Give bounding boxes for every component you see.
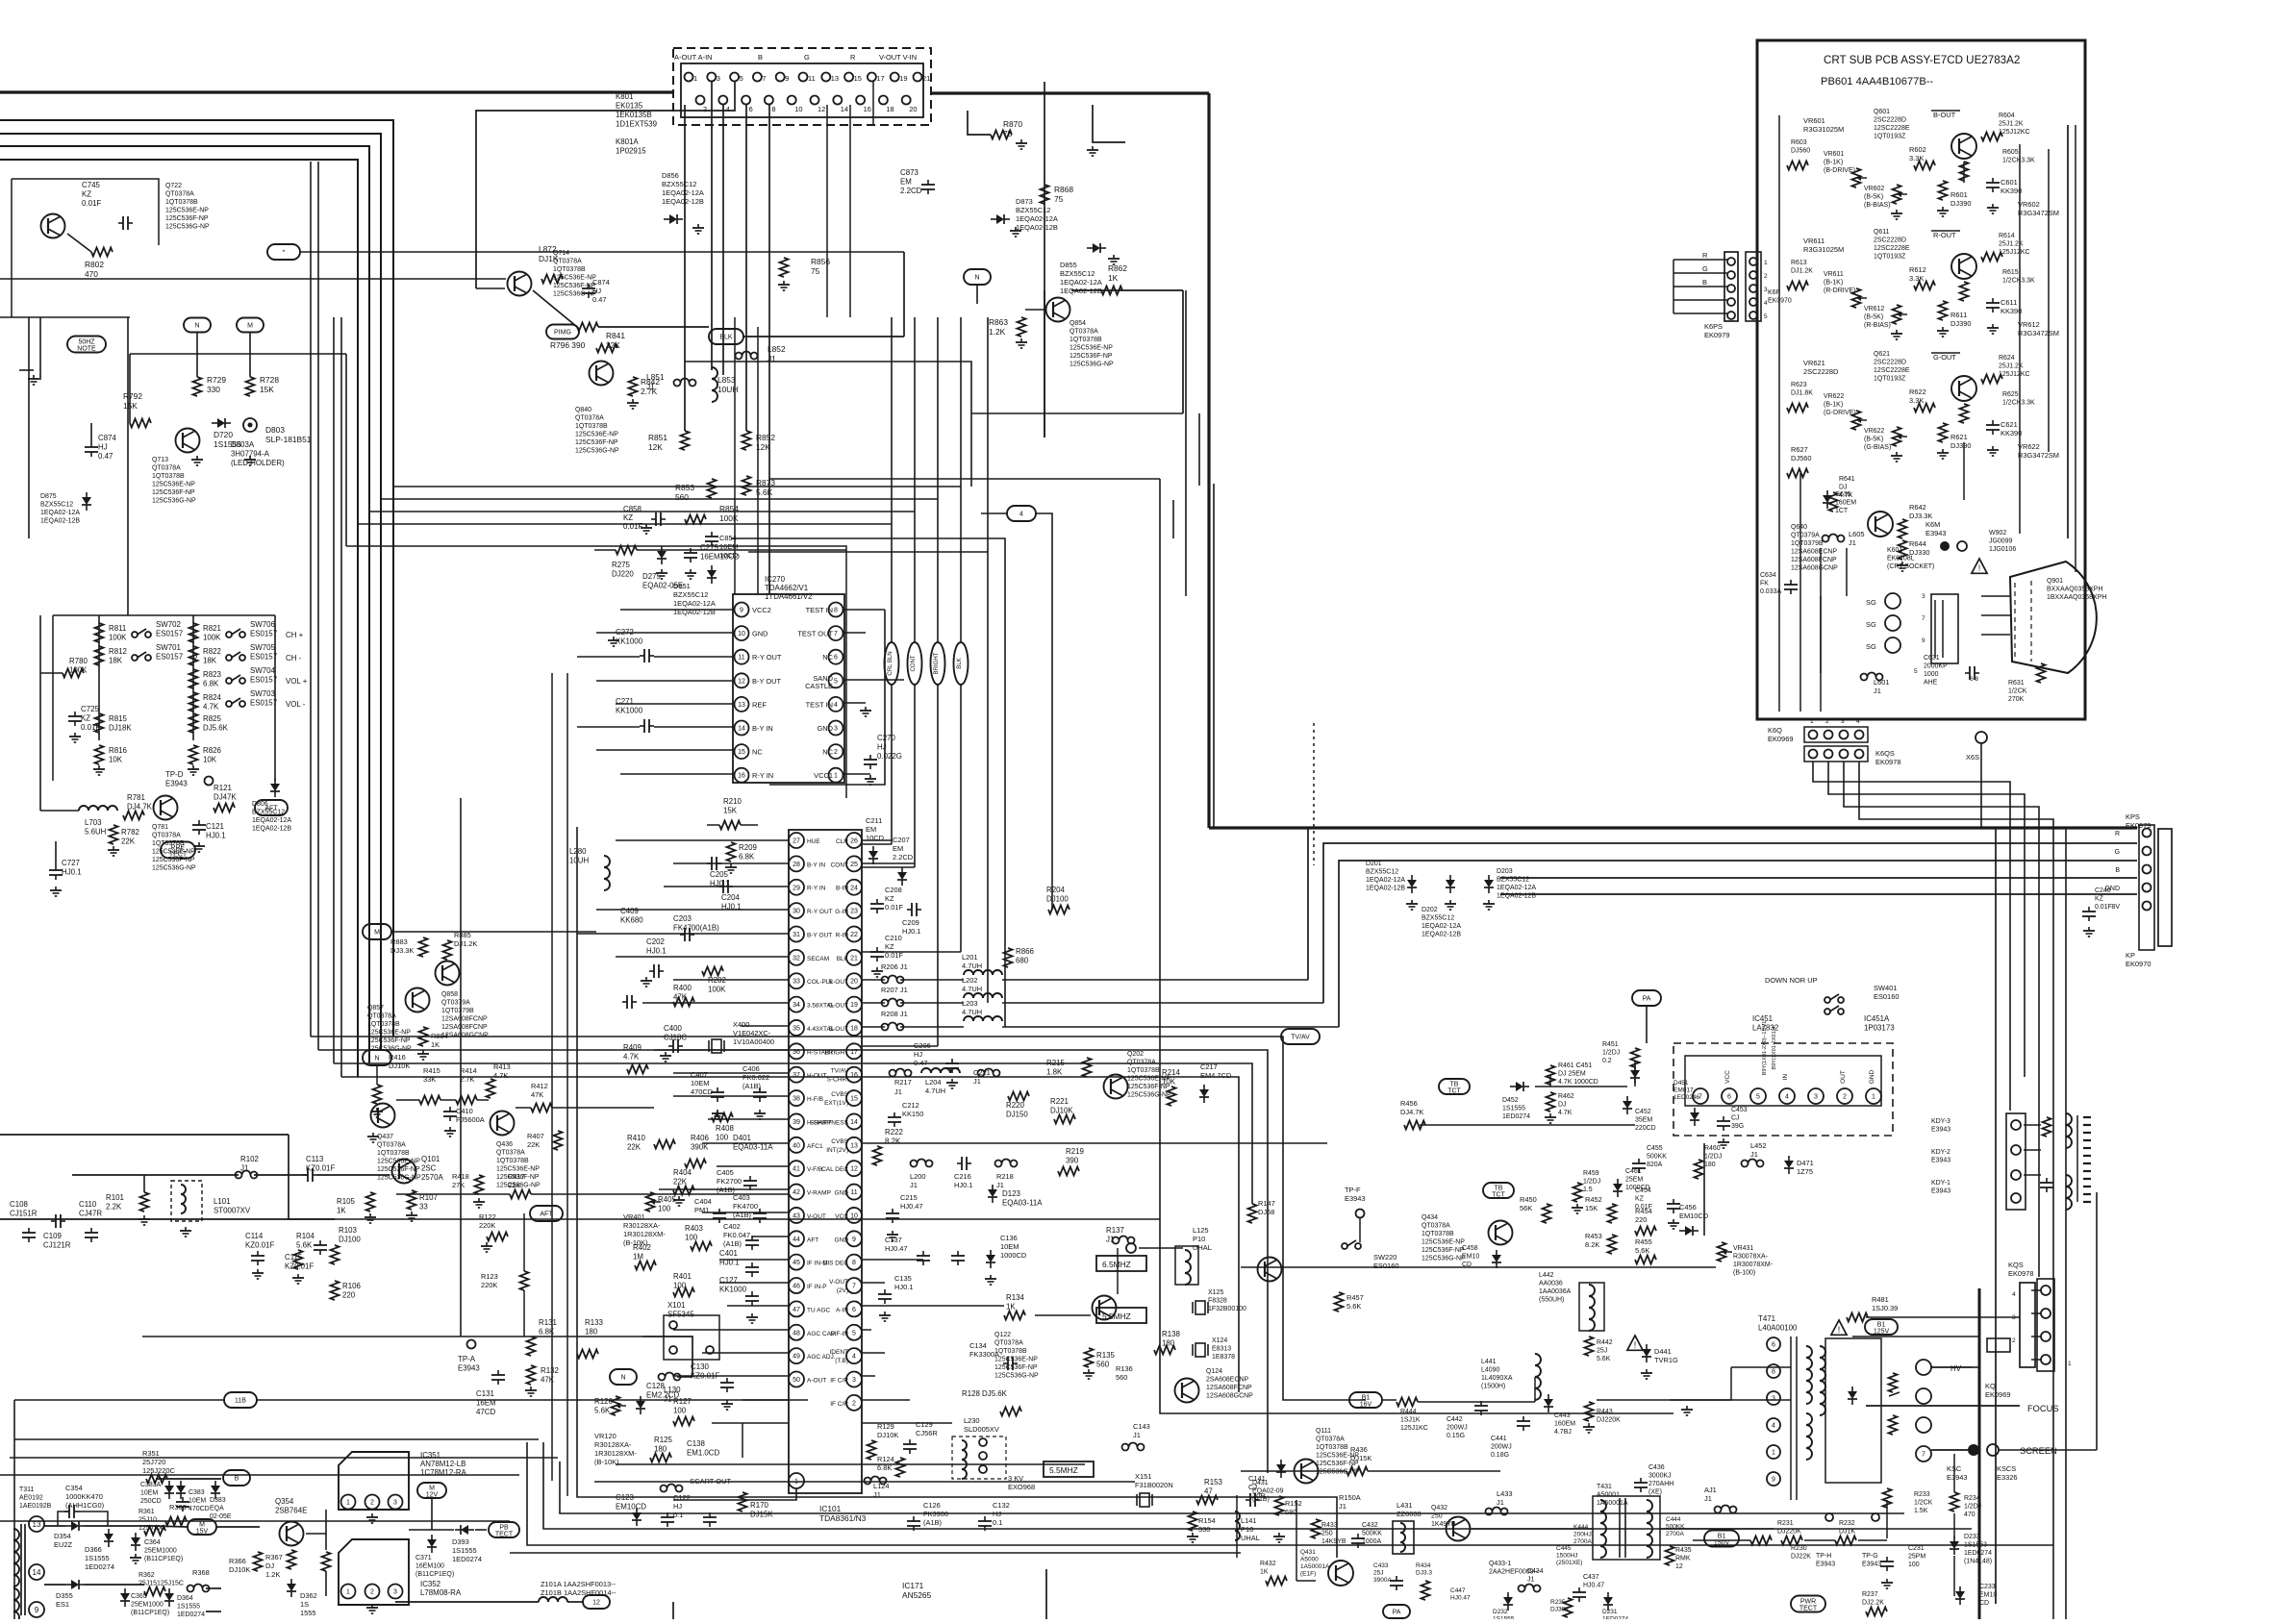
svg-text:R455: R455 (1635, 1237, 1652, 1246)
wire thick top bus right (931, 93, 2137, 828)
wire left rows (0, 252, 904, 337)
crystal X125 (1193, 1289, 1246, 1314)
svg-text:14: 14 (738, 726, 745, 733)
svg-text:6: 6 (834, 655, 838, 662)
svg-text:IN: IN (1782, 1073, 1789, 1080)
svg-text:14: 14 (841, 105, 848, 113)
svg-text:J1: J1 (1497, 1498, 1504, 1507)
resistor R460 (1695, 1145, 1723, 1179)
connector K6P (1702, 251, 1792, 339)
svg-text:(A1B): (A1B) (723, 1239, 742, 1248)
resistor R462 (1545, 1092, 1574, 1123)
capacitor C436 (1634, 1464, 1673, 1496)
svg-text:CONT: CONT (831, 862, 848, 868)
svg-text:RMK: RMK (1675, 1556, 1691, 1562)
svg-text:1EQA02-12A: 1EQA02-12A (1497, 885, 1536, 891)
wire ic270 top (594, 550, 846, 579)
capacitor C404 C403 (694, 1193, 767, 1223)
svg-text:SECAM: SECAM (807, 956, 829, 962)
svg-text:R209: R209 (739, 843, 757, 852)
svg-text:Q202: Q202 (1127, 1051, 1144, 1058)
resistor R454 (1635, 1207, 1656, 1236)
svg-text:EM10CD: EM10CD (616, 1503, 646, 1512)
label VR120 (594, 1432, 637, 1466)
svg-text:200WJ: 200WJ (1447, 1425, 1468, 1432)
svg-text:EK0979: EK0979 (1704, 331, 1729, 339)
svg-text:C402: C402 (723, 1222, 741, 1231)
svg-text:1ED0274: 1ED0274 (85, 1562, 114, 1571)
svg-text:R780: R780 (69, 657, 88, 665)
svg-text:Q857: Q857 (367, 1005, 384, 1012)
svg-text:R368: R368 (192, 1568, 210, 1577)
svg-text:1EQA02-12A: 1EQA02-12A (1366, 877, 1405, 884)
svg-text:8.2K: 8.2K (1585, 1240, 1599, 1249)
svg-text:DJ4.7K: DJ4.7K (127, 803, 153, 812)
svg-text:15: 15 (854, 74, 862, 83)
ic IC451 dashed (1673, 1014, 1895, 1136)
label crt pb601 (1821, 76, 1934, 87)
svg-text:L78M08-RA: L78M08-RA (420, 1588, 462, 1597)
svg-text:AFT: AFT (264, 806, 278, 812)
svg-text:C433: C433 (1373, 1562, 1389, 1569)
capacitor C454 (1635, 1187, 1680, 1229)
diode D875 (40, 492, 91, 525)
svg-text:KK1000: KK1000 (719, 1286, 747, 1294)
svg-text:CJ151R: CJ151R (10, 1210, 38, 1218)
svg-text:13: 13 (738, 702, 745, 709)
wire v 1247 (1198, 413, 1200, 486)
svg-text:Q601: Q601 (1874, 109, 1890, 115)
capacitor C410 (443, 1107, 485, 1137)
svg-text:R170: R170 (750, 1501, 768, 1510)
svg-text:QT0378A: QT0378A (1127, 1060, 1156, 1066)
svg-text:2AA2HEF0009--: 2AA2HEF0009-- (1489, 1569, 1539, 1576)
svg-text:38: 38 (793, 1096, 800, 1103)
svg-text:T471: T471 (1758, 1314, 1775, 1323)
svg-text:D720: D720 (214, 430, 233, 439)
svg-text:R611: R611 (1950, 311, 1967, 319)
svg-text:VOL +: VOL + (286, 677, 308, 686)
label IC171 (902, 1581, 932, 1600)
svg-text:TP-D: TP-D (165, 770, 184, 779)
svg-text:1: 1 (1810, 718, 1814, 725)
svg-text:1/2DJ: 1/2DJ (1704, 1154, 1722, 1161)
svg-text:500KK: 500KK (1362, 1531, 1382, 1537)
svg-text:(B-1K): (B-1K) (1824, 402, 1843, 409)
svg-text:R103: R103 (339, 1226, 357, 1235)
svg-text:E3943: E3943 (1345, 1194, 1366, 1203)
svg-text:(XE): (XE) (1648, 1489, 1662, 1496)
node PRETECT (161, 842, 195, 859)
resistor R214 (1162, 1068, 1180, 1106)
svg-text:HJ: HJ (98, 443, 108, 452)
switch SW702 (132, 620, 197, 639)
label KDY3 (1931, 1118, 1950, 1134)
svg-text:QT0378A: QT0378A (377, 1142, 406, 1149)
resistor R822 (189, 646, 221, 665)
svg-text:1/2CK3.3K: 1/2CK3.3K (2002, 400, 2035, 407)
wire bottom stage (1241, 1471, 1593, 1581)
svg-text:C128: C128 (646, 1382, 665, 1390)
diode D851 (673, 565, 717, 616)
svg-text:J1: J1 (973, 1077, 981, 1086)
svg-text:R367: R367 (265, 1553, 283, 1562)
svg-text:KK680: KK680 (620, 916, 643, 925)
wire hv line (1972, 1366, 1979, 1368)
svg-text:L431: L431 (1397, 1501, 1413, 1510)
svg-text:A-OUT A-IN: A-OUT A-IN (674, 53, 713, 62)
svg-text:33K: 33K (423, 1075, 436, 1084)
transistor Q202 (1104, 1051, 1172, 1099)
svg-text:HUE: HUE (807, 838, 820, 845)
wire psu out (306, 1510, 487, 1596)
svg-text:25J: 25J (1373, 1570, 1383, 1577)
svg-text:2SC2228D: 2SC2228D (1803, 367, 1839, 376)
capacitor C134 (969, 1341, 1018, 1370)
svg-text:R154: R154 (1198, 1516, 1216, 1525)
wire v 1262 (1213, 484, 1215, 828)
svg-text:3.3K: 3.3K (1909, 154, 1924, 162)
svg-text:1JG0106: 1JG0106 (1989, 546, 2016, 553)
svg-text:25EM: 25EM (1625, 1177, 1643, 1184)
svg-text:47CD: 47CD (476, 1408, 495, 1416)
diode D366 (85, 1529, 114, 1571)
diode D856 (662, 171, 704, 234)
svg-text:R152: R152 (1285, 1499, 1302, 1508)
svg-text:45: 45 (793, 1260, 800, 1266)
svg-text:R728: R728 (260, 375, 279, 385)
svg-text:GND: GND (835, 1237, 849, 1243)
svg-text:C635: C635 (1835, 491, 1851, 498)
svg-text:IC451A: IC451A (1864, 1014, 1890, 1023)
svg-text:200HJ: 200HJ (1573, 1532, 1592, 1538)
resistor R451 (1602, 1041, 1640, 1067)
svg-text:25: 25 (850, 862, 858, 868)
svg-text:R621: R621 (1950, 433, 1968, 441)
svg-text:1: 1 (693, 74, 697, 83)
svg-text:CJ121R: CJ121R (43, 1241, 71, 1250)
svg-text:8: 8 (834, 608, 838, 614)
svg-text:DOWN NOR UP: DOWN NOR UP (1765, 976, 1818, 985)
wire nested down 1 (731, 538, 1005, 1027)
wire flyback vert (1673, 1043, 1704, 1236)
svg-text:TDA8361/N3: TDA8361/N3 (819, 1513, 867, 1523)
svg-text:QT0378A: QT0378A (575, 415, 604, 422)
svg-text:C406: C406 (742, 1064, 760, 1073)
svg-text:VR601: VR601 (1824, 151, 1844, 158)
inductor L442 (1539, 1272, 1604, 1331)
svg-text:R366: R366 (229, 1557, 246, 1565)
wire clr (862, 840, 915, 863)
svg-text:R823: R823 (203, 670, 221, 679)
svg-text:PB: PB (499, 1525, 509, 1532)
svg-text:X101: X101 (667, 1301, 685, 1310)
capacitor C442 (1447, 1401, 1488, 1439)
wire kdy feeds (2024, 1125, 2041, 1175)
svg-text:DJ100: DJ100 (1046, 895, 1069, 904)
label 5.5MHZ-2 (1044, 1462, 1094, 1477)
svg-text:3: 3 (393, 1589, 397, 1596)
resistor R210 (707, 797, 758, 830)
svg-text:KZ: KZ (885, 942, 894, 951)
svg-text:R406: R406 (691, 1134, 709, 1142)
svg-text:125C536G-NP: 125C536G-NP (1070, 362, 1114, 368)
label T471 (1758, 1314, 1847, 1335)
resistor R404 (673, 1168, 694, 1206)
svg-text:R627: R627 (1791, 445, 1808, 454)
svg-text:EM10: EM10 (1462, 1254, 1479, 1261)
svg-text:1ED0274: 1ED0274 (177, 1612, 205, 1618)
svg-text:ES0157: ES0157 (156, 630, 183, 638)
svg-text:(2V): (2V) (837, 1287, 848, 1294)
svg-text:125C536F-NP: 125C536F-NP (377, 1166, 420, 1173)
resistor R406 D401 (685, 1134, 773, 1168)
svg-text:KQS: KQS (2008, 1261, 2024, 1269)
svg-text:DJ3.3K: DJ3.3K (1909, 512, 1932, 520)
resistor R780 (40, 615, 88, 678)
resistor R362 (138, 1572, 184, 1596)
capacitor C461 (1613, 1168, 1650, 1197)
svg-text:1ED0274: 1ED0274 (1502, 1113, 1530, 1120)
svg-text:R413: R413 (493, 1062, 511, 1071)
resistor R202 (702, 967, 726, 994)
svg-text:125C536G-NP: 125C536G-NP (1127, 1092, 1171, 1099)
svg-text:GND: GND (752, 630, 768, 638)
svg-text:G: G (1702, 264, 1708, 273)
svg-text:AE0192: AE0192 (19, 1495, 43, 1502)
svg-text:B: B (758, 53, 763, 62)
wire bus turn 1 (393, 317, 961, 952)
capacitor C217 (1199, 1062, 1232, 1103)
svg-text:C601: C601 (2001, 178, 2018, 187)
svg-text:EU2Z: EU2Z (54, 1540, 72, 1549)
switch SW703 (226, 689, 306, 709)
svg-text:9: 9 (35, 1606, 39, 1614)
svg-text:L125: L125 (1193, 1226, 1209, 1235)
svg-text:R210: R210 (723, 797, 742, 806)
switch SW705 (226, 643, 302, 662)
svg-text:C461: C461 (1625, 1168, 1642, 1175)
svg-text:Q437: Q437 (377, 1134, 393, 1140)
svg-text:15K: 15K (723, 807, 738, 815)
svg-text:4.7UH: 4.7UH (962, 962, 982, 970)
svg-text:B: B (1702, 278, 1707, 287)
svg-text:1000CD: 1000CD (1625, 1185, 1650, 1191)
svg-text:42: 42 (793, 1189, 800, 1196)
svg-text:B1: B1 (1718, 1534, 1726, 1540)
wire rgb bus R (1307, 828, 1309, 980)
transistor Q858 (436, 962, 490, 1039)
resistor R461 C451 (1547, 1062, 1641, 1086)
resistor R121 (214, 784, 237, 812)
svg-text:IC270: IC270 (765, 575, 786, 584)
svg-text:250: 250 (1321, 1531, 1333, 1537)
svg-text:220CD: 220CD (1635, 1125, 1656, 1132)
wire sw220 link (1269, 1283, 1271, 1473)
svg-text:W902: W902 (1989, 530, 2006, 537)
svg-text:1SJ0.39: 1SJ0.39 (1872, 1304, 1898, 1312)
svg-text:R237: R237 (1862, 1591, 1878, 1598)
svg-text:L452: L452 (1750, 1141, 1767, 1150)
svg-text:10K: 10K (109, 756, 123, 764)
svg-text:180: 180 (585, 1328, 598, 1337)
crt socket body (1931, 594, 1958, 663)
wire thick screen v (1978, 1288, 1981, 1619)
svg-text:CAL DEC: CAL DEC (821, 1166, 848, 1173)
flyback core box (1820, 1338, 1881, 1483)
svg-text:1M: 1M (633, 1253, 643, 1262)
rect box L130 (642, 1337, 692, 1377)
diode D855 (1060, 243, 1120, 295)
svg-text:ST0007XV: ST0007XV (214, 1207, 251, 1215)
svg-text:INT(2V): INT(2V) (826, 1147, 848, 1154)
svg-text:6.5MHZ: 6.5MHZ (1102, 1260, 1131, 1269)
wire crt right rail (2049, 125, 2068, 538)
wire bottom right v (1887, 1454, 1954, 1596)
svg-text:31: 31 (793, 932, 800, 938)
svg-text:C240: C240 (2095, 887, 2111, 894)
svg-text:R432: R432 (1260, 1561, 1276, 1567)
svg-text:IC352: IC352 (420, 1580, 440, 1588)
svg-text:1EQA02-12B: 1EQA02-12B (252, 826, 291, 833)
wire K801 pin3 (711, 82, 713, 370)
svg-text:SW401: SW401 (1874, 984, 1897, 992)
svg-text:VR622: VR622 (2018, 442, 2040, 451)
svg-text:HJ0.47: HJ0.47 (1583, 1583, 1604, 1589)
svg-text:VR611: VR611 (1824, 271, 1844, 278)
wire bl bus4 (0, 1400, 519, 1619)
svg-text:DJ10K: DJ10K (229, 1565, 250, 1574)
svg-text:BXXAAQ0355XPH: BXXAAQ0355XPH (2047, 587, 2103, 593)
svg-text:1QT0378B: 1QT0378B (1070, 337, 1102, 343)
svg-text:R456: R456 (1400, 1099, 1418, 1108)
wire sw bus top (53, 615, 275, 781)
svg-text:KZ: KZ (1635, 1196, 1645, 1203)
svg-text:R841: R841 (606, 331, 625, 340)
svg-text:4.7BJ: 4.7BJ (1554, 1429, 1572, 1436)
svg-text:R631: R631 (2008, 680, 2025, 687)
svg-text:18K: 18K (109, 657, 123, 665)
svg-text:125C536E-NP: 125C536E-NP (377, 1159, 420, 1165)
svg-text:BZX55C12: BZX55C12 (1422, 915, 1454, 922)
svg-text:R417: R417 (508, 1172, 525, 1181)
svg-text:V-RAMP: V-RAMP (807, 1190, 831, 1197)
svg-text:1V10A00400: 1V10A00400 (733, 1037, 774, 1046)
svg-text:C458: C458 (1462, 1245, 1478, 1252)
svg-text:3.3K: 3.3K (1909, 274, 1924, 283)
svg-text:LA7832: LA7832 (1752, 1024, 1778, 1033)
resistor R866 (1004, 947, 1035, 967)
resistor R138 (1154, 1330, 1180, 1355)
svg-text:KK1000: KK1000 (616, 637, 643, 646)
svg-text:R-Y OUT: R-Y OUT (807, 909, 833, 915)
label SCREEN (1931, 1444, 2057, 1456)
svg-text:C409: C409 (620, 907, 639, 915)
svg-text:VR601: VR601 (1803, 116, 1825, 125)
wire right bundle v4 (1844, 762, 2039, 1277)
svg-text:!: ! (1978, 563, 1981, 573)
svg-text:DJ10K: DJ10K (389, 1062, 410, 1070)
svg-text:2.2K: 2.2K (106, 1203, 122, 1212)
resistor R366 (229, 1552, 263, 1574)
svg-text:TCT: TCT (1492, 1192, 1505, 1199)
diode D364 (164, 1588, 205, 1618)
inductor L431 (1393, 1501, 1422, 1554)
transistor Q713 (152, 429, 256, 505)
svg-text:14: 14 (850, 1119, 858, 1126)
svg-text:22K: 22K (606, 340, 620, 350)
jumper R102 (236, 1155, 259, 1179)
svg-text:R232: R232 (1839, 1520, 1855, 1527)
svg-text:220: 220 (1635, 1215, 1647, 1224)
svg-text:10: 10 (794, 105, 802, 113)
crt gun (1981, 562, 2097, 673)
svg-text:R851: R851 (648, 433, 667, 442)
svg-text:(CRT SOCKET): (CRT SOCKET) (1887, 563, 1934, 570)
svg-text:4: 4 (726, 105, 730, 113)
svg-text:R275: R275 (612, 561, 630, 569)
svg-text:4: 4 (852, 1354, 856, 1361)
label vert updown (1762, 1021, 1777, 1076)
svg-text:(550UH): (550UH) (1539, 1297, 1564, 1304)
svg-text:C114: C114 (245, 1232, 264, 1240)
svg-text:1QT0378B: 1QT0378B (1422, 1231, 1454, 1237)
svg-text:EQA02-05E: EQA02-05E (642, 582, 683, 590)
resistor R851 (648, 431, 690, 452)
resistor R853 (675, 479, 717, 502)
label KDY1 (1931, 1180, 1950, 1195)
inductor L433 (1486, 1489, 1513, 1515)
svg-text:5: 5 (740, 74, 743, 83)
svg-text:B-OUT: B-OUT (829, 1026, 848, 1033)
svg-text:C131: C131 (476, 1389, 494, 1398)
wire V-line (1182, 290, 1184, 413)
svg-text:C211: C211 (866, 816, 882, 825)
svg-text:02-05E: 02-05E (210, 1513, 232, 1520)
svg-text:160EM: 160EM (1554, 1421, 1575, 1428)
svg-text:DJ10K: DJ10K (1050, 1107, 1073, 1115)
svg-text:5.6K: 5.6K (296, 1241, 313, 1250)
svg-text:E8313: E8313 (1212, 1346, 1231, 1353)
svg-text:R127: R127 (673, 1397, 692, 1406)
svg-text:30: 30 (793, 909, 800, 915)
svg-text:K6Q: K6Q (1768, 726, 1782, 735)
svg-text:C436: C436 (1648, 1464, 1665, 1471)
svg-text:4.7K: 4.7K (203, 703, 219, 712)
svg-text:125C536G-NP: 125C536G-NP (377, 1175, 421, 1182)
svg-text:IF C/R: IF C/R (830, 1401, 848, 1408)
svg-text:TECT: TECT (495, 1532, 514, 1538)
svg-text:TVR1G: TVR1G (1654, 1356, 1678, 1364)
node B-pwr (223, 1470, 250, 1486)
label Z101 (541, 1580, 617, 1597)
svg-text:6: 6 (1727, 1094, 1731, 1101)
transistor Q714 (508, 250, 598, 298)
svg-text:CJ: CJ (1731, 1115, 1740, 1122)
svg-text:KZ0.01F: KZ0.01F (306, 1164, 335, 1173)
svg-text:11: 11 (738, 655, 744, 662)
resistor R728 (246, 375, 280, 396)
wire bus top-left 2 (0, 134, 381, 1050)
svg-text:J1: J1 (1704, 1494, 1712, 1503)
svg-text:Q611: Q611 (1874, 229, 1890, 236)
svg-text:1QT0378B: 1QT0378B (1316, 1444, 1348, 1451)
svg-text:KK390: KK390 (2001, 187, 2022, 195)
capacitor C725 (68, 705, 100, 742)
svg-text:0.033A: 0.033A (1760, 588, 1781, 595)
svg-text:500KK: 500KK (1647, 1154, 1667, 1161)
svg-text:1EK0135B: 1EK0135B (616, 111, 652, 119)
